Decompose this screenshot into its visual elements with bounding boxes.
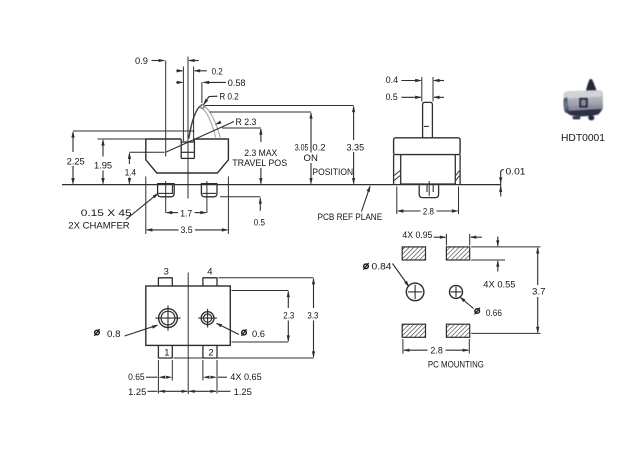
front view centerline xyxy=(187,57,189,199)
dimension 2.25 xyxy=(73,130,194,132)
pc pad top-left xyxy=(402,247,425,260)
svg-text:2: 2 xyxy=(208,346,213,357)
dimension 0.58 xyxy=(201,82,203,103)
dimension 3.35 xyxy=(353,107,355,141)
bottom view boss small xyxy=(201,312,214,325)
svg-text:0.5: 0.5 xyxy=(386,91,398,102)
svg-text:3.35: 3.35 xyxy=(347,141,365,152)
dimension 2.8 side xyxy=(396,187,398,215)
dimension 1.95 xyxy=(98,138,146,140)
svg-text:1.25: 1.25 xyxy=(128,386,146,397)
svg-text:4X 0.55: 4X 0.55 xyxy=(483,278,515,289)
svg-text:ON: ON xyxy=(304,152,318,163)
svg-text:2.3: 2.3 xyxy=(283,309,294,320)
bottom view boss large xyxy=(159,309,178,328)
svg-text:2.8: 2.8 xyxy=(430,345,442,356)
side wall hatch left xyxy=(394,171,400,176)
bottom view pin 1 xyxy=(158,345,172,358)
svg-text:POSITION: POSITION xyxy=(312,166,353,177)
front right pin xyxy=(201,184,217,197)
dimension 1.25 right xyxy=(189,390,216,392)
bottom view centerline xyxy=(187,273,189,395)
svg-text:3.05: 3.05 xyxy=(295,141,309,152)
leader dia 0.66 xyxy=(475,309,480,314)
svg-text:0.8: 0.8 xyxy=(107,328,121,339)
side stem extension lines xyxy=(421,77,423,102)
pcb reference plane line xyxy=(62,184,501,186)
actuator extension lines xyxy=(182,67,184,142)
svg-text:3.7: 3.7 xyxy=(532,285,546,296)
max travel line xyxy=(222,127,261,129)
svg-text:0.84: 0.84 xyxy=(372,261,392,272)
side view centerline xyxy=(428,181,430,196)
svg-text:0.9: 0.9 xyxy=(135,55,148,66)
svg-text:0.65: 0.65 xyxy=(128,371,145,382)
free position line xyxy=(205,105,354,107)
dimension 0.5 pin below plane xyxy=(220,196,260,198)
svg-text:0.2: 0.2 xyxy=(312,141,325,152)
side view left wall xyxy=(393,155,395,185)
dimension 1.7 xyxy=(167,212,178,214)
side view stem xyxy=(423,102,433,137)
dimension 2.3 bottom view xyxy=(232,290,289,292)
svg-text:TRAVEL POS: TRAVEL POS xyxy=(232,157,287,168)
dimension 4X 0.65 pin2 xyxy=(203,376,210,379)
dimension 3.7 xyxy=(471,332,540,334)
svg-text:4X 0.65: 4X 0.65 xyxy=(230,371,261,382)
bottom view pin 3 xyxy=(158,278,172,286)
svg-text:0.4: 0.4 xyxy=(386,74,399,85)
svg-text:0.58: 0.58 xyxy=(228,77,246,88)
pc pad bottom-right xyxy=(446,324,469,337)
bottom view body xyxy=(146,286,231,345)
pc hole large xyxy=(406,283,424,301)
dimension 3.5 xyxy=(145,177,147,235)
svg-text:4X 0.95: 4X 0.95 xyxy=(402,229,432,240)
front left pin xyxy=(158,184,175,197)
svg-text:0.5: 0.5 xyxy=(254,217,265,228)
pc pad top-right xyxy=(446,247,469,260)
dimension 3.3 bottom view xyxy=(219,277,314,279)
lever travel arc R2.3 xyxy=(189,105,202,139)
dimension 3.05 and 0.2 on position xyxy=(310,113,312,153)
side wall hatch right xyxy=(456,171,460,176)
svg-text:R 2.3: R 2.3 xyxy=(236,116,257,127)
dimension 0.9 extension line xyxy=(165,61,167,157)
svg-text:0.01: 0.01 xyxy=(506,166,526,177)
bottom view pin 4 xyxy=(203,278,217,286)
side view cap xyxy=(394,138,461,155)
side view center pin xyxy=(419,185,438,197)
front view actuator plunger xyxy=(180,139,182,158)
svg-text:PCB REF PLANE: PCB REF PLANE xyxy=(318,211,383,222)
svg-text:PC MOUNTING: PC MOUNTING xyxy=(428,358,484,369)
product photo HDT0001 xyxy=(563,79,603,120)
dimension 0.2 xyxy=(176,70,182,72)
svg-text:2.8: 2.8 xyxy=(423,205,434,216)
on position line xyxy=(210,111,312,113)
front view body outline xyxy=(146,139,229,173)
svg-text:3.5: 3.5 xyxy=(181,224,193,235)
svg-text:1.4: 1.4 xyxy=(125,167,136,178)
pc pad bottom-left xyxy=(402,324,425,337)
svg-text:1.95: 1.95 xyxy=(94,159,112,170)
svg-text:R 0.2: R 0.2 xyxy=(219,90,238,101)
svg-text:3: 3 xyxy=(164,265,169,276)
leader dia 0.84 xyxy=(364,264,369,269)
svg-text:3.3: 3.3 xyxy=(307,309,318,320)
pin extension line right xyxy=(206,181,208,213)
bottom pins extension lines xyxy=(157,360,159,394)
svg-text:2.25: 2.25 xyxy=(67,155,85,166)
svg-text:4: 4 xyxy=(207,265,212,276)
dimension 1.4 xyxy=(129,151,164,153)
side view cavity bottom xyxy=(401,183,456,185)
dimension 4X 0.55 xyxy=(471,246,540,248)
side view right wall xyxy=(459,155,461,185)
svg-text:0.2: 0.2 xyxy=(212,66,223,77)
pc hole small xyxy=(450,285,463,298)
pin extension line left xyxy=(165,181,167,213)
svg-text:0.15 X 45: 0.15 X 45 xyxy=(81,207,132,218)
svg-text:1.25: 1.25 xyxy=(234,386,252,397)
bottom view pin 2 xyxy=(203,345,217,358)
svg-text:0.66: 0.66 xyxy=(486,307,502,318)
lever tip R0.2 xyxy=(201,105,205,109)
dimension 2.8 pc mounting xyxy=(402,339,404,354)
svg-text:HDT0001: HDT0001 xyxy=(561,133,605,144)
svg-text:1: 1 xyxy=(164,346,169,357)
svg-text:1.7: 1.7 xyxy=(180,207,192,218)
leader dia 0.6 xyxy=(242,330,247,335)
svg-text:0.6: 0.6 xyxy=(252,328,265,339)
dimension 0.01 xyxy=(500,172,502,197)
dimension 2.3 max travel pos xyxy=(260,129,262,142)
leader dia 0.8 xyxy=(95,330,100,335)
svg-text:2X CHAMFER: 2X CHAMFER xyxy=(68,219,130,230)
